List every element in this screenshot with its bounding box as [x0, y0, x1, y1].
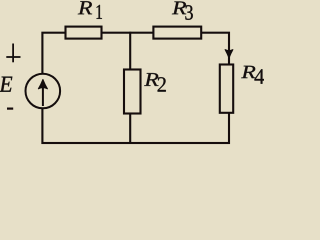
resistor R1	[66, 27, 102, 39]
resistor R3	[153, 27, 201, 39]
resistor R4	[220, 65, 233, 113]
plus sign	[12, 44, 14, 63]
label R3	[172, 1, 186, 14]
minus sign	[7, 107, 13, 109]
resistor R2	[124, 70, 141, 114]
label R4	[241, 66, 255, 78]
label R1	[78, 1, 92, 14]
current arrow down (into R4)	[225, 50, 233, 59]
label E	[0, 77, 12, 92]
wire middle branch	[129, 32, 131, 144]
source E (circle)	[26, 74, 61, 109]
source arrow up	[42, 88, 44, 106]
label R2	[144, 73, 158, 86]
circuit schematic: source E driving ladder of resistors R1..R4	[0, 0, 264, 146]
outer loop wire (top/right/bottom/left)	[42, 33, 229, 143]
